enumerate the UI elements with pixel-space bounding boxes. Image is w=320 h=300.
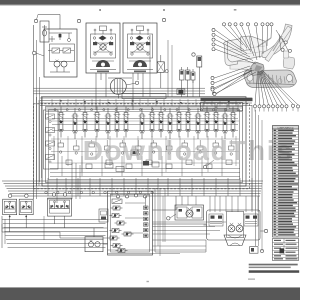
bottom-left long wires [2, 219, 108, 221]
callout 2 left [32, 51, 36, 55]
travel motor right valves [244, 214, 258, 226]
filter drain circle [165, 70, 168, 73]
small interbox [99, 209, 108, 222]
engine callout [135, 81, 138, 84]
main block fine grid [53, 136, 55, 160]
main block inner box [46, 107, 243, 183]
main block outer box [42, 97, 246, 186]
box B mid sub-box [50, 44, 75, 62]
title block [273, 239, 299, 261]
pump box B (pilot pump group) [44, 29, 77, 77]
final drive trapezoid [224, 235, 246, 246]
excavator lower-left callouts [214, 66, 250, 78]
main block port circles [54, 109, 56, 111]
swing motor internals [177, 207, 187, 218]
accumulator pair 2 [191, 69, 195, 83]
bottom toolbar bar [0, 288, 300, 300]
travel motor left valves [209, 214, 223, 226]
engine manifold bar [122, 94, 166, 99]
leader line callout2 [36, 53, 44, 56]
excavator bottom callout fan [255, 71, 258, 104]
accumulator pair 1 [180, 67, 185, 83]
manifold inner frame [111, 194, 150, 252]
main block bottom gallery [50, 168, 240, 170]
manifold port stack [144, 206, 149, 209]
main block gallery lines [52, 118, 238, 120]
engine circle [110, 78, 126, 94]
manifold callouts [117, 195, 120, 198]
wire right bundle [251, 105, 253, 210]
tiny page mark top [234, 9, 237, 11]
solenoid dark block [178, 90, 183, 94]
main block inner box 2 [49, 110, 240, 180]
lower pipe bus [2, 180, 263, 182]
excavator right callouts [276, 30, 284, 42]
lower connection circles [45, 191, 47, 193]
upper pipe bus [34, 87, 206, 89]
wire bus to swing [175, 196, 177, 210]
svg-text:DownloadThis: DownloadThis [83, 135, 294, 166]
travel callout right [264, 229, 267, 232]
callout pedal 2 [25, 194, 28, 197]
dark label text band [201, 98, 253, 101]
manifold solenoid valves [111, 206, 123, 210]
swing leader [170, 214, 176, 218]
pilot pump box [85, 237, 103, 252]
callout 1 top-left [34, 19, 37, 22]
pilot pump circles [88, 242, 93, 247]
main block lower symbols [58, 143, 64, 147]
box B top tee wiring [49, 32, 72, 34]
pilot manifold box [108, 191, 153, 255]
legend table [273, 126, 299, 237]
travel pedal box 2 [19, 199, 33, 215]
main block inner galleries top [46, 107, 242, 109]
main block center dark box [131, 150, 138, 155]
main pump box C [86, 23, 120, 73]
block lower extra rects [105, 163, 113, 168]
callout joystick [52, 193, 55, 196]
valve glyph in B1 [43, 30, 47, 36]
engine drop line [117, 94, 119, 98]
box B gear pump circles [54, 61, 60, 67]
callout far top right of pumps [162, 18, 165, 21]
excavator top callout row [224, 26, 243, 45]
excavator left callout column [215, 30, 244, 50]
main block outer dashed boundary [34, 104, 250, 189]
callout pedal 1 [8, 194, 11, 197]
manifold bottom wires [108, 249, 207, 251]
footnote text lines [249, 264, 298, 266]
travel motor circles [228, 223, 235, 232]
joystick box [48, 198, 72, 216]
accumulator callout [192, 53, 195, 56]
small compressor box [250, 247, 259, 254]
tall accumulator right [197, 56, 202, 67]
box B relief valves [52, 48, 60, 53]
tiny mark 1a [99, 9, 101, 11]
engine leader [126, 83, 136, 85]
return filter [157, 62, 164, 73]
accumulator drop lines [181, 83, 183, 97]
page number mark [147, 281, 149, 282]
pedal connection dots [9, 216, 11, 218]
left sub-box valves [46, 114, 55, 119]
wire left vertical bundle [33, 25, 35, 199]
top toolbar bar [0, 0, 300, 5]
travel motor outer box [207, 210, 260, 240]
manifold internal wires [145, 196, 147, 206]
pilot pump wires [103, 243, 108, 245]
callout pump C [77, 19, 80, 22]
vertical drops from pumps to bus [95, 73, 97, 110]
pedal valves 2 [21, 201, 31, 209]
box B top stem [59, 15, 61, 30]
main block top band ticks [51, 99, 53, 106]
callout inside block right [203, 165, 206, 168]
wires pedals down [9, 215, 11, 232]
main block spool row [58, 107, 65, 138]
note box [201, 102, 243, 110]
travel motor center box [227, 212, 244, 238]
swing motor box [175, 205, 204, 220]
wire main block to manifold [71, 163, 73, 199]
mid bottom leader callouts [214, 70, 252, 90]
tiny footnote mark [248, 279, 255, 280]
lower bus vertical drops [47, 178, 49, 196]
pedal valves 1 [5, 201, 15, 209]
main block lower symbols 2 [61, 156, 63, 176]
swing motor callout [167, 217, 170, 220]
main block left vertical bundle [36, 97, 38, 186]
pilot filter box B1 [40, 21, 49, 42]
main block left sub-box [44, 110, 59, 169]
joystick valves [50, 201, 60, 209]
main pump box D [123, 23, 157, 73]
pipe bus above main block [40, 97, 252, 99]
excavator illustration [244, 70, 297, 88]
wire pump boxes to engine [100, 73, 102, 80]
callout small box [260, 249, 263, 252]
travel pedal box 1 [3, 199, 17, 215]
